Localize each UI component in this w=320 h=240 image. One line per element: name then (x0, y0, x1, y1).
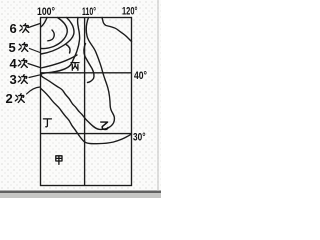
svg-text:5: 5 (9, 40, 16, 55)
svg-text:110°: 110° (82, 6, 96, 18)
svg-text:6: 6 (10, 21, 17, 36)
svg-text:30°: 30° (133, 132, 146, 144)
svg-text:40°: 40° (134, 70, 147, 82)
svg-text:120°: 120° (122, 6, 138, 18)
svg-text:2: 2 (6, 91, 13, 106)
svg-text:3: 3 (10, 72, 17, 87)
svg-text:4: 4 (10, 56, 18, 71)
svg-text:100°: 100° (37, 6, 55, 18)
